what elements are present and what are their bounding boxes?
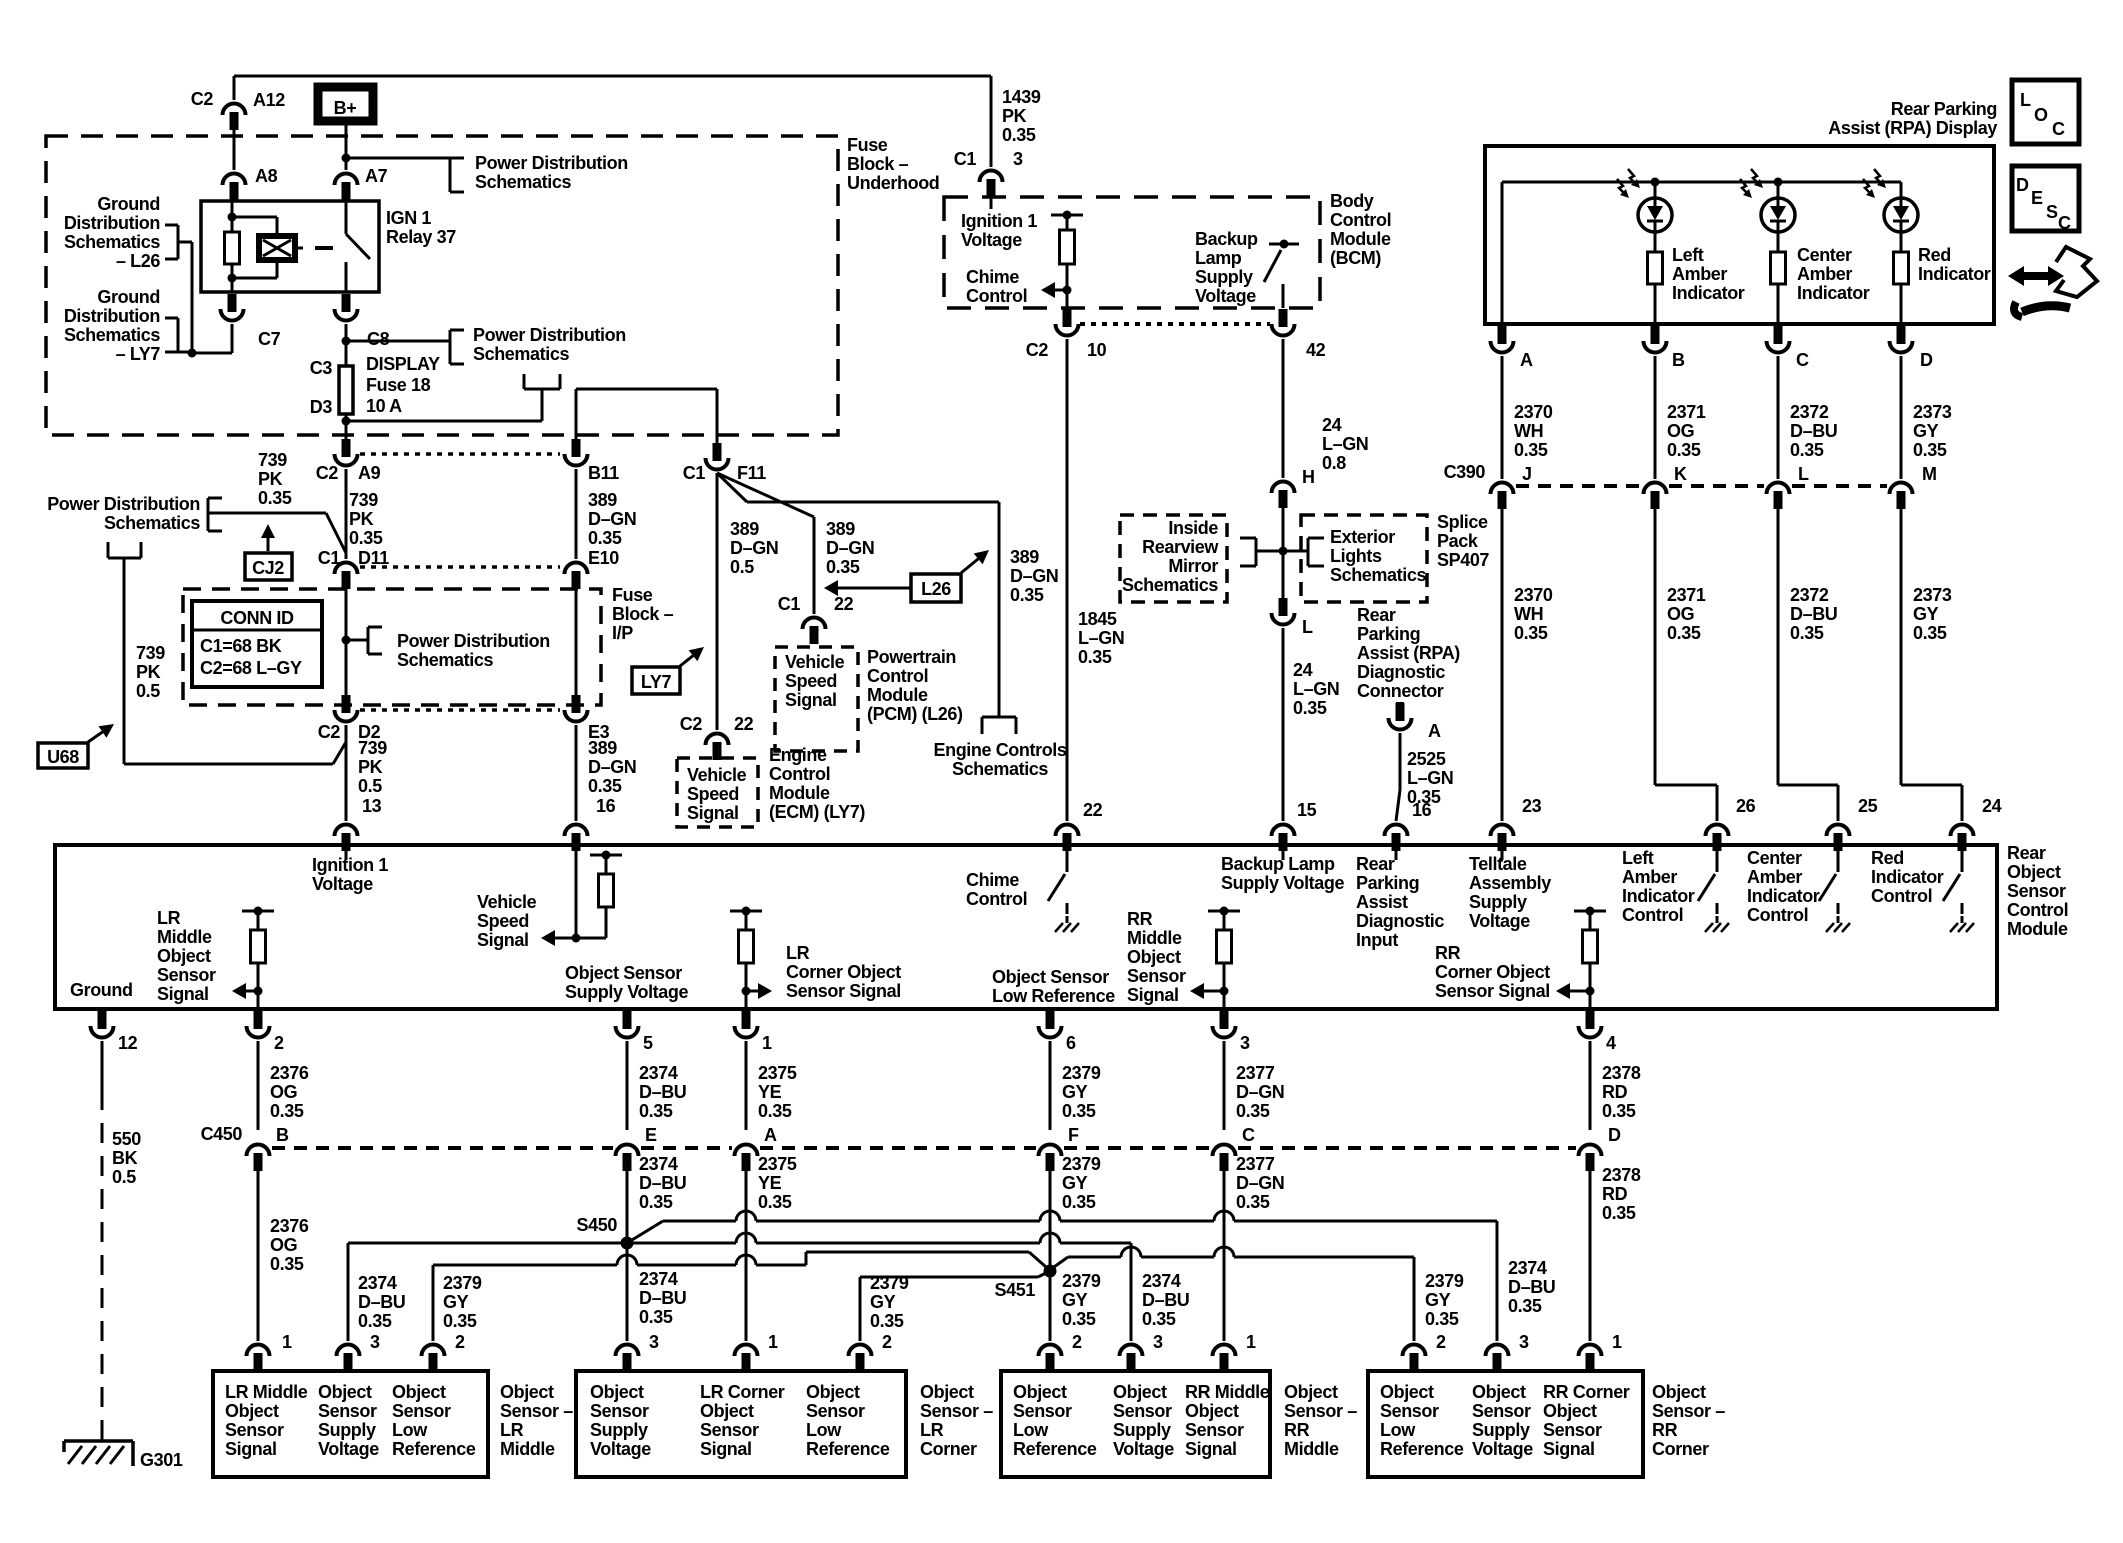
svg-text:WH: WH (1514, 421, 1543, 441)
svg-text:Low Reference: Low Reference (992, 986, 1115, 1006)
svg-text:Ignition 1: Ignition 1 (312, 855, 388, 875)
svg-text:OG: OG (1667, 421, 1694, 441)
svg-text:Signal: Signal (1543, 1439, 1595, 1459)
svg-text:389: 389 (1010, 547, 1039, 567)
connector pin C7 (221, 294, 281, 349)
connector RR corner pin 3 (1486, 1332, 1530, 1371)
svg-text:2370: 2370 (1514, 585, 1553, 605)
wire C7 ground net (178, 242, 232, 358)
svg-text:OG: OG (270, 1082, 297, 1102)
resistor LR corner pullup (730, 907, 762, 1010)
svg-text:Indicator: Indicator (1747, 886, 1820, 906)
svg-text:C2: C2 (1026, 340, 1049, 360)
svg-text:B11: B11 (588, 463, 619, 483)
label U68 with arrow (38, 724, 114, 768)
svg-text:C1=68 BK: C1=68 BK (200, 636, 282, 656)
svg-text:D–GN: D–GN (1236, 1082, 1284, 1102)
connector LR corner pin 2 (849, 1332, 893, 1371)
svg-text:Speed: Speed (785, 671, 837, 691)
object sensor LR middle box (213, 1371, 488, 1477)
svg-text:GY: GY (1913, 421, 1939, 441)
svg-text:Center: Center (1797, 245, 1852, 265)
svg-text:0.35: 0.35 (1667, 440, 1701, 460)
switch red indicator (1943, 845, 1974, 932)
svg-text:Middle: Middle (157, 927, 212, 947)
dashed connector row C390 (1516, 484, 1887, 488)
label 24 pin (1982, 796, 2002, 816)
connector pin A8 (223, 166, 278, 200)
svg-text:C390: C390 (1444, 462, 1486, 482)
svg-text:Schematics: Schematics (1122, 575, 1218, 595)
svg-text:Vehicle: Vehicle (687, 765, 747, 785)
label Object Sensor Supply Voltage module (565, 963, 688, 1002)
svg-text:C1: C1 (778, 594, 801, 614)
svg-text:0.5: 0.5 (730, 557, 754, 577)
wire 2378 RD upper (1589, 1041, 1592, 1130)
wire 2379 GY upper (1049, 1041, 1052, 1130)
LED center amber indicator (1740, 169, 1795, 252)
label RR Middle Object Sensor Signal (1127, 909, 1186, 1005)
bracket power distribution left (208, 498, 222, 531)
label Ground Distribution Schematics LY7 (64, 287, 161, 364)
svg-text:Sensor Signal: Sensor Signal (786, 981, 901, 1001)
svg-text:4: 4 (1606, 1033, 1616, 1053)
svg-text:Sensor: Sensor (590, 1401, 649, 1421)
connector pin B11 (565, 439, 620, 483)
arrow LR middle signal (232, 983, 258, 999)
label 2379 GY 0.35 mid (1062, 1154, 1101, 1212)
wire 2525 L-GN to module pin 16 (1396, 733, 1400, 821)
svg-text:D–GN: D–GN (1236, 1173, 1284, 1193)
svg-text:24: 24 (1293, 660, 1313, 680)
svg-text:Rear: Rear (2007, 843, 2046, 863)
svg-text:Sensor Signal: Sensor Signal (1435, 981, 1550, 1001)
svg-text:Control: Control (867, 666, 928, 686)
svg-text:0.5: 0.5 (136, 681, 160, 701)
node splice pack junction (1256, 500, 1308, 600)
wire 2375 YE column A (745, 1168, 748, 1341)
label 739 PK 0.35 left (258, 450, 292, 508)
svg-text:Sensor: Sensor (1543, 1420, 1602, 1440)
svg-text:D–BU: D–BU (639, 1173, 686, 1193)
wire low reference bus S451 to RR corner pin 2 (1054, 1247, 1414, 1341)
svg-text:Voltage: Voltage (312, 874, 373, 894)
label 739 PK 0.5 (136, 643, 165, 701)
vehicle speed signal box PCM (775, 647, 858, 751)
node BCM chime junction with arrow (1041, 282, 1072, 308)
svg-text:OG: OG (1667, 604, 1694, 624)
label 24 L-GN 0.8 (1322, 415, 1368, 473)
connector LR corner pin 3 (616, 1332, 660, 1371)
label Ignition 1 Voltage BCM (961, 211, 1037, 250)
svg-text:Sensor: Sensor (1472, 1401, 1531, 1421)
svg-text:A8: A8 (255, 166, 278, 186)
label LR corner box columns (590, 1382, 890, 1459)
bracket ground distribution L26 (165, 225, 178, 259)
svg-text:2376: 2376 (270, 1063, 309, 1083)
label 2379 GY 0.35 RR middle (1062, 1271, 1101, 1329)
label 1439 PK 0.35 (1002, 87, 1041, 145)
svg-text:2379: 2379 (870, 1273, 909, 1293)
svg-text:10 A: 10 A (366, 396, 402, 416)
svg-text:LR: LR (157, 908, 181, 928)
bracket ground distribution LY7 (165, 318, 178, 352)
svg-text:Relay 37: Relay 37 (386, 227, 456, 247)
svg-text:Schematics: Schematics (64, 325, 160, 345)
svg-text:Voltage: Voltage (590, 1439, 651, 1459)
label Rear Parking Assist RPA Diagnostic Connector (1357, 605, 1460, 701)
svg-text:K: K (1674, 464, 1687, 484)
svg-text:0.35: 0.35 (1010, 585, 1044, 605)
connector module pin 4 (1579, 1011, 1617, 1053)
svg-text:3: 3 (1013, 149, 1023, 169)
label Center Amber Indicator Control (1747, 848, 1820, 925)
label LR Middle Object Sensor Signal (157, 908, 216, 1004)
svg-text:A: A (764, 1125, 777, 1145)
label LY7 with arrow (632, 647, 704, 694)
svg-text:0.35: 0.35 (443, 1311, 477, 1331)
svg-text:389: 389 (826, 519, 855, 539)
connector RR middle pin 1 (1213, 1332, 1257, 1371)
label Center Amber Indicator (1797, 245, 1870, 303)
svg-text:LR: LR (786, 943, 810, 963)
svg-text:Vehicle: Vehicle (785, 652, 845, 672)
svg-text:F11: F11 (737, 463, 766, 483)
svg-text:0.35: 0.35 (270, 1254, 304, 1274)
svg-text:Object Sensor: Object Sensor (992, 967, 1109, 987)
svg-text:Supply: Supply (1113, 1420, 1171, 1440)
label 2376 OG 0.35 upper (270, 1063, 309, 1121)
bracket engine controls schematics (982, 717, 1016, 734)
svg-text:GY: GY (1062, 1173, 1088, 1193)
svg-text:Indicator: Indicator (1622, 886, 1695, 906)
svg-text:U68: U68 (47, 747, 79, 767)
label Fuse Block - I/P (612, 585, 674, 643)
label Red Indicator (1918, 245, 1991, 284)
wire BCM C1 stub (990, 197, 993, 209)
svg-text:D–GN: D–GN (826, 538, 874, 558)
connector C2 pin D2 (318, 695, 381, 742)
svg-text:Object: Object (806, 1382, 860, 1402)
svg-text:D: D (2016, 175, 2029, 195)
svg-text:C: C (1242, 1125, 1255, 1145)
rear parking assist display box (1485, 146, 1994, 324)
connector C450 pin C (1213, 1125, 1256, 1171)
svg-text:L: L (1798, 464, 1809, 484)
svg-text:0.35: 0.35 (1514, 623, 1548, 643)
svg-text:Vehicle: Vehicle (477, 892, 537, 912)
svg-text:Diagnostic: Diagnostic (1357, 662, 1445, 682)
connector C1 pin F11 (683, 443, 766, 483)
fuse DISPLAY Fuse 18 10A (310, 358, 353, 417)
LED left amber indicator (1617, 169, 1672, 252)
svg-text:C3: C3 (310, 358, 333, 378)
svg-text:Object: Object (2007, 862, 2061, 882)
wire 2370 WH to module pin 23 (1501, 506, 1504, 821)
svg-text:Backup Lamp: Backup Lamp (1221, 854, 1335, 874)
wire 2378 RD column D (1589, 1168, 1592, 1341)
label 389 D-GN 0.35 PCM (826, 519, 874, 577)
wire 550 BK 0.5 ground (101, 1041, 104, 1441)
svg-text:PK: PK (349, 509, 374, 529)
svg-text:Sensor: Sensor (2007, 881, 2066, 901)
svg-text:Signal: Signal (700, 1439, 752, 1459)
svg-text:Corner: Corner (920, 1439, 977, 1459)
resistor RR middle pullup (1208, 907, 1240, 1010)
svg-text:16: 16 (596, 796, 616, 816)
svg-text:PK: PK (358, 757, 383, 777)
svg-text:Signal: Signal (477, 930, 529, 950)
svg-text:0.35: 0.35 (1002, 125, 1036, 145)
svg-text:L–GN: L–GN (1293, 679, 1339, 699)
svg-text:Object: Object (1543, 1401, 1597, 1421)
svg-text:D3: D3 (310, 397, 333, 417)
svg-text:1: 1 (768, 1332, 778, 1352)
svg-text:Supply Voltage: Supply Voltage (565, 982, 688, 1002)
svg-text:Schematics: Schematics (475, 172, 571, 192)
svg-text:2375: 2375 (758, 1154, 797, 1174)
svg-text:S450: S450 (577, 1215, 618, 1235)
svg-text:D–BU: D–BU (1142, 1290, 1189, 1310)
label 1845 L-GN 0.35 (1078, 609, 1124, 667)
svg-text:RR: RR (1284, 1420, 1310, 1440)
svg-text:Fuse: Fuse (847, 135, 888, 155)
connector module pin 6 (1039, 1011, 1077, 1053)
svg-text:24: 24 (1322, 415, 1342, 435)
svg-text:Supply: Supply (1195, 267, 1253, 287)
svg-text:Sensor: Sensor (157, 965, 216, 985)
svg-text:Schematics: Schematics (1330, 565, 1426, 585)
label 22 chime pin (1083, 800, 1103, 820)
svg-text:Module: Module (867, 685, 928, 705)
svg-text:Object: Object (500, 1382, 554, 1402)
svg-text:42: 42 (1306, 340, 1326, 360)
svg-text:Supply: Supply (590, 1420, 648, 1440)
svg-text:0.5: 0.5 (112, 1167, 136, 1187)
svg-text:J: J (1522, 464, 1532, 484)
svg-text:Sensor –: Sensor – (920, 1401, 993, 1421)
connector module pin 22 (1056, 825, 1079, 851)
wire 739 PK 0.5 long run (124, 558, 346, 764)
svg-text:25: 25 (1858, 796, 1878, 816)
svg-text:2: 2 (882, 1332, 892, 1352)
label 2371 OG 0.35 lower (1667, 585, 1706, 643)
svg-text:RD: RD (1602, 1082, 1628, 1102)
resistor LR middle pullup (242, 907, 274, 1010)
label Left Amber Indicator Control (1622, 848, 1695, 925)
svg-text:C7: C7 (258, 329, 281, 349)
svg-text:739: 739 (258, 450, 287, 470)
svg-text:2377: 2377 (1236, 1063, 1275, 1083)
wire 2373 GY to module pin 24 (1901, 506, 1962, 821)
svg-text:Middle: Middle (1284, 1439, 1339, 1459)
svg-text:2: 2 (455, 1332, 465, 1352)
svg-text:0.35: 0.35 (1602, 1203, 1636, 1223)
svg-text:GY: GY (1913, 604, 1939, 624)
body control module dashed box (944, 197, 1320, 308)
label Backup Lamp Supply Voltage module (1221, 845, 1344, 893)
bracket power distribution schematics C8 (450, 330, 464, 364)
label 26 pin (1736, 796, 1756, 816)
svg-text:Sensor –: Sensor – (1652, 1401, 1725, 1421)
label Power Distribution Schematics I/P (397, 631, 550, 670)
svg-text:PK: PK (258, 469, 283, 489)
svg-text:2379: 2379 (1062, 1154, 1101, 1174)
svg-text:Reference: Reference (1380, 1439, 1464, 1459)
fuse block I/P dashed box (183, 589, 601, 705)
svg-text:GY: GY (870, 1292, 896, 1312)
label 2378 RD 0.35 mid (1602, 1165, 1641, 1223)
wire display supply rail (1502, 178, 1901, 325)
svg-text:Left: Left (1672, 245, 1704, 265)
wire C8 to fuse with power tap (342, 324, 451, 366)
svg-text:D–GN: D–GN (1010, 566, 1058, 586)
svg-text:Sensor: Sensor (1113, 1401, 1172, 1421)
svg-text:0.35: 0.35 (349, 528, 383, 548)
svg-text:0.35: 0.35 (1062, 1101, 1096, 1121)
connector module pin 23 (1491, 825, 1514, 851)
wire 2371 OG to module pin 26 (1655, 506, 1717, 821)
svg-text:0.35: 0.35 (1425, 1309, 1459, 1329)
svg-text:D: D (1608, 1125, 1621, 1145)
label 2374 D-BU 0.35 mid (639, 1154, 686, 1212)
B+ power symbol (318, 87, 373, 121)
bracket power distribution lower-left (108, 542, 141, 558)
svg-text:0.35: 0.35 (758, 1101, 792, 1121)
svg-text:Parking: Parking (1357, 624, 1420, 644)
connector C450 pin F (1039, 1125, 1080, 1171)
wire 2372 D-BU display to C390 (1777, 356, 1780, 479)
svg-text:Fuse: Fuse (612, 585, 653, 605)
svg-text:Supply: Supply (1469, 892, 1527, 912)
svg-text:Control: Control (1330, 210, 1391, 230)
svg-text:Schematics: Schematics (104, 513, 200, 533)
svg-text:Amber: Amber (1622, 867, 1677, 887)
resistor red indicator (1894, 252, 1909, 324)
wire A9 column through I/P box (342, 586, 369, 700)
svg-text:Powertrain: Powertrain (867, 647, 956, 667)
svg-text:Engine Controls: Engine Controls (934, 740, 1067, 760)
svg-text:Chime: Chime (966, 870, 1019, 890)
svg-text:2376: 2376 (270, 1216, 309, 1236)
label 739 PK 0.35 A9 (349, 490, 383, 548)
svg-text:Speed: Speed (477, 911, 529, 931)
svg-text:2371: 2371 (1667, 402, 1706, 422)
svg-text:Object: Object (318, 1382, 372, 1402)
svg-text:(ECM) (LY7): (ECM) (LY7) (769, 802, 865, 822)
svg-text:3: 3 (1519, 1332, 1529, 1352)
label Engine Controls Schematics (934, 740, 1067, 779)
splice S450 (577, 1215, 634, 1250)
svg-text:0.35: 0.35 (1790, 623, 1824, 643)
vehicle speed signal internal resistor (541, 845, 622, 946)
wire E3 to module pin 16 (575, 725, 578, 821)
svg-text:GY: GY (443, 1292, 469, 1312)
label Chime Control module (966, 870, 1027, 909)
svg-text:2378: 2378 (1602, 1165, 1641, 1185)
svg-text:Red: Red (1871, 848, 1904, 868)
label 2525 L-GN 0.35 (1407, 749, 1453, 807)
svg-text:Voltage: Voltage (1195, 286, 1256, 306)
label RR corner box columns (1380, 1382, 1630, 1459)
svg-text:C2: C2 (318, 722, 341, 742)
label Rear Object Sensor Control Module (2007, 843, 2068, 939)
svg-text:0.35: 0.35 (1667, 623, 1701, 643)
connector C450 pin A (735, 1125, 778, 1171)
label 550 BK 0.5 (112, 1129, 141, 1187)
svg-text:S: S (2046, 202, 2058, 222)
relay coil symbol (259, 236, 295, 260)
svg-text:Ignition 1: Ignition 1 (961, 211, 1037, 231)
svg-text:L–GN: L–GN (1322, 434, 1368, 454)
svg-text:Module: Module (769, 783, 830, 803)
svg-text:Sensor: Sensor (1013, 1401, 1072, 1421)
svg-text:550: 550 (112, 1129, 141, 1149)
svg-text:0.35: 0.35 (1913, 623, 1947, 643)
svg-text:0.35: 0.35 (1236, 1101, 1270, 1121)
svg-text:Control: Control (1871, 886, 1932, 906)
svg-text:Supply: Supply (1472, 1420, 1530, 1440)
label 2374 D-BU 0.35 LR corner (639, 1269, 686, 1327)
svg-text:739: 739 (136, 643, 165, 663)
svg-text:Center: Center (1747, 848, 1802, 868)
label 2374 D-BU 0.35 RR middle (1142, 1271, 1189, 1329)
svg-text:LR Corner: LR Corner (700, 1382, 785, 1402)
svg-text:2371: 2371 (1667, 585, 1706, 605)
arrow LR corner signal (746, 983, 772, 999)
wire 42 to H (1282, 339, 1285, 478)
svg-text:O: O (2034, 105, 2048, 125)
svg-text:A: A (1520, 350, 1533, 370)
svg-text:15: 15 (1297, 800, 1317, 820)
svg-text:Object: Object (225, 1401, 279, 1421)
svg-text:Exterior: Exterior (1330, 527, 1395, 547)
svg-text:Sensor: Sensor (1127, 966, 1186, 986)
svg-text:16: 16 (1412, 800, 1432, 820)
wire 2377 D-GN column C (1223, 1168, 1226, 1341)
label RR Corner Object Sensor Signal (1435, 943, 1550, 1001)
svg-text:Object: Object (1185, 1401, 1239, 1421)
svg-text:Sensor –: Sensor – (500, 1401, 573, 1421)
LED red indicator (1863, 169, 1918, 252)
wire 2376 OG upper (257, 1041, 260, 1130)
label Engine Control Module ECM LY7 (769, 745, 865, 822)
svg-text:Indicator: Indicator (1672, 283, 1745, 303)
svg-text:Object: Object (590, 1382, 644, 1402)
connector LR corner pin 1 (735, 1332, 779, 1371)
svg-text:Object: Object (1472, 1382, 1526, 1402)
connector module pin 13 (335, 825, 358, 851)
connector pin C display (1767, 326, 1810, 370)
svg-text:Low: Low (392, 1420, 428, 1440)
svg-text:C2: C2 (316, 463, 339, 483)
connector C1 pin D11 (318, 548, 389, 589)
svg-text:Schematics: Schematics (952, 759, 1048, 779)
svg-text:Control: Control (1747, 905, 1808, 925)
svg-text:2370: 2370 (1514, 402, 1553, 422)
connector pin B display (1644, 326, 1686, 370)
label Vehicle Speed Signal module (477, 892, 537, 950)
svg-text:0.35: 0.35 (1142, 1309, 1176, 1329)
svg-text:L–GN: L–GN (1407, 768, 1453, 788)
svg-text:6: 6 (1066, 1033, 1076, 1053)
svg-text:Body: Body (1330, 191, 1374, 211)
wire 2375 YE upper (745, 1041, 748, 1130)
wire supply bus S450 right to RR middle pin 3 (633, 1233, 1131, 1341)
svg-text:Mirror: Mirror (1168, 556, 1218, 576)
svg-text:Indicator: Indicator (1918, 264, 1991, 284)
svg-text:2374: 2374 (639, 1154, 678, 1174)
